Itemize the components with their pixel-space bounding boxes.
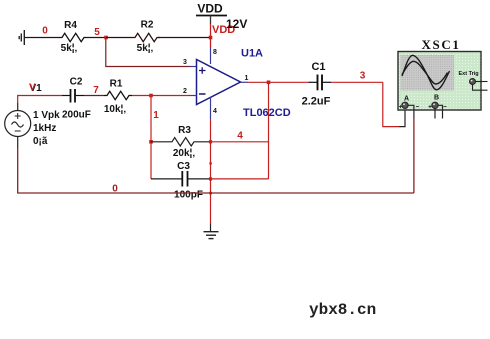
wire node5 to pin3 (106, 39, 189, 67)
wire pin 4 to ground (210, 119, 212, 223)
svg-text:5: 5 (94, 27, 100, 38)
svg-text:VDD: VDD (197, 2, 223, 16)
wire R2 to VDD junction (158, 37, 211, 39)
svg-text:0¡ã: 0¡ã (33, 136, 48, 147)
power symbol VDD (196, 2, 227, 25)
resistor R2 (106, 20, 160, 55)
resistor R4 (59, 20, 87, 54)
svg-text:10k¦‚: 10k¦‚ (104, 104, 126, 115)
svg-text:C1: C1 (311, 61, 325, 73)
svg-text:TL062CD: TL062CD (243, 107, 291, 119)
ground GND1 top-left (19, 30, 24, 45)
svg-text:20k¦‚: 20k¦‚ (173, 148, 195, 159)
feedback vertical wire (268, 82, 270, 179)
wire output to C1 (248, 81, 309, 83)
pin 1 output stub (241, 81, 249, 83)
svg-text:2: 2 (183, 88, 187, 95)
svg-text:R1: R1 (110, 79, 123, 90)
svg-text:1: 1 (245, 75, 249, 82)
junction R3 left (149, 140, 153, 144)
wire VDD to junction (red) (210, 24, 212, 47)
capacitor C2 (62, 77, 91, 121)
svg-text:1: 1 (153, 110, 159, 121)
wire net0 ground to R4 (24, 37, 59, 39)
node 1 junction (149, 94, 153, 98)
svg-text:8: 8 (213, 49, 217, 56)
oscilloscope XSC1 (398, 37, 488, 119)
wire node 4 (211, 141, 269, 143)
svg-text:1kHz: 1kHz (33, 123, 56, 134)
pin 3 stub (189, 66, 197, 68)
junction VDD/R2 (209, 36, 213, 40)
svg-text:3: 3 (360, 71, 366, 82)
wire net 0 bottom (18, 148, 414, 193)
ground GND2 bottom (204, 223, 219, 238)
svg-text:200uF: 200uF (62, 110, 91, 121)
svg-text:100pF: 100pF (174, 190, 203, 201)
svg-text:R3: R3 (178, 125, 191, 136)
wire C2 to R1 (84, 95, 104, 97)
capacitor C3 (151, 161, 211, 201)
resistor R3 (151, 125, 211, 159)
wire R1 to pin 2 (132, 95, 189, 97)
svg-text:U1A: U1A (241, 48, 263, 60)
svg-text:B: B (434, 95, 439, 102)
svg-text:C2: C2 (70, 77, 83, 88)
wire V1 top to C2 (18, 96, 62, 104)
op-amp U1A (197, 48, 291, 120)
svg-text:ybx8.cn: ybx8.cn (309, 301, 376, 319)
resistor R1 (104, 79, 132, 116)
svg-text:4: 4 (213, 108, 217, 115)
svg-text:XSC1: XSC1 (422, 37, 461, 52)
svg-text:A: A (404, 96, 409, 103)
output junction (267, 81, 271, 85)
wire scope A- to net 0 (413, 119, 415, 194)
svg-text:2.2uF: 2.2uF (302, 96, 331, 108)
wire R4 to node 5 (87, 37, 106, 39)
svg-text:R2: R2 (141, 20, 154, 31)
svg-text:R4: R4 (64, 20, 77, 31)
source V1 (5, 83, 60, 149)
svg-text:12V: 12V (226, 17, 247, 31)
pin 2 stub (189, 95, 197, 97)
svg-text:5k¦‚: 5k¦‚ (61, 43, 78, 54)
node 5 junction (104, 36, 108, 40)
svg-text:Ext Trig: Ext Trig (459, 71, 479, 77)
wire node 1 down (150, 96, 152, 179)
wire C3 right to feedback corner (211, 178, 269, 180)
svg-text:4: 4 (237, 131, 243, 142)
svg-text:C3: C3 (177, 161, 190, 172)
svg-text:3: 3 (183, 59, 187, 66)
wire C1 to node 3 corner (331, 81, 383, 83)
svg-text:5k¦‚: 5k¦‚ (137, 43, 154, 54)
capacitor C1 (302, 61, 331, 108)
svg-text:0: 0 (112, 184, 118, 195)
svg-text:7: 7 (93, 85, 99, 96)
svg-text:1 Vpk: 1 Vpk (33, 110, 60, 121)
pin 4 stub (210, 97, 212, 119)
svg-text:0: 0 (42, 26, 48, 37)
wire node 3 down to scope A+ (383, 82, 399, 126)
svg-text:V: V (29, 83, 36, 94)
pin 8 stub (210, 47, 212, 64)
